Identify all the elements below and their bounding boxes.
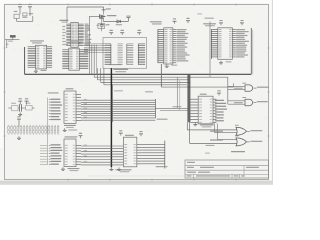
wire U7 to U9A — [215, 124, 237, 133]
wire U4 down — [160, 64, 162, 87]
IC U9 — [117, 130, 143, 172]
bus wire D — [104, 68, 187, 85]
diode D1 net — [103, 16, 131, 26]
gate U9B — [235, 135, 263, 146]
main bus vertical — [111, 68, 123, 167]
IC U7 — [187, 75, 227, 128]
IC U8 — [40, 133, 83, 171]
paper background — [0, 0, 273, 185]
wire dark L-net — [25, 28, 253, 74]
IC U4 — [150, 18, 190, 68]
crystal X1 cluster — [8, 98, 34, 115]
wire U7 to U9B — [218, 124, 237, 140]
label 74HCT32 — [205, 151, 245, 154]
wire stub verticals — [177, 77, 180, 110]
misc top labels — [197, 13, 214, 18]
bus wire B — [97, 68, 188, 80]
net label A3 — [206, 145, 215, 146]
IC U2 — [28, 40, 52, 72]
right edge shade — [272, 0, 273, 185]
left label bus — [46, 98, 48, 166]
wire pair to U7 — [155, 106, 187, 110]
wire bus to U9A — [187, 122, 236, 130]
RC network R1 C1 — [14, 4, 34, 21]
IC U1 — [59, 20, 91, 47]
bus wire E — [161, 83, 233, 87]
rail verticals — [89, 16, 96, 77]
bus wires U6 out — [81, 91, 168, 120]
wire VCC rail — [67, 7, 104, 23]
gate U8B — [228, 97, 268, 106]
gate U8A — [228, 83, 269, 92]
bus wires U9 out — [141, 141, 167, 169]
wires U1 to P1 — [84, 44, 105, 53]
scan noise speckles — [7, 9, 270, 179]
scan streak bottom — [88, 175, 183, 176]
bus wires U8 to U9 — [81, 145, 123, 165]
drawing frame border — [5, 5, 269, 180]
ground main bus — [109, 167, 119, 170]
connector P1 — [103, 30, 147, 72]
scan grey wash — [5, 5, 268, 179]
capacitor C2 — [96, 15, 104, 28]
bus wire C — [101, 68, 191, 82]
net label A2 — [210, 139, 223, 140]
title block — [185, 160, 269, 178]
connector J1 — [8, 116, 59, 139]
wire U5 down — [209, 22, 211, 78]
wire bus to U9B — [190, 122, 237, 143]
bottom scan band — [0, 181, 273, 185]
bus wire A — [94, 76, 228, 78]
transistor Q1 — [89, 8, 116, 21]
net label A1 — [210, 131, 223, 132]
gate U9A — [235, 125, 263, 136]
IC U6 — [48, 88, 81, 131]
frame zone ticks — [3, 3, 270, 181]
resistor R2 — [98, 24, 110, 32]
fuse F1 left edge — [5, 35, 20, 48]
IC U3 — [62, 40, 88, 70]
page margins — [0, 0, 273, 185]
vertical gate feed — [227, 77, 229, 104]
IC U5 — [203, 20, 249, 64]
